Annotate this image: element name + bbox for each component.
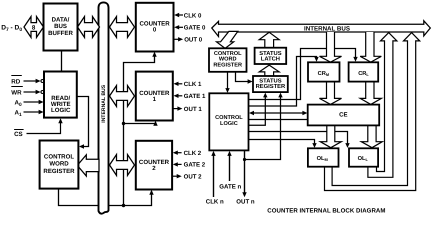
pin RD [11, 76, 44, 86]
arrow bus to control word register (single head) [77, 155, 99, 176]
block control logic [209, 93, 248, 150]
arrowhead into CRL top [353, 57, 357, 62]
junction dot rail bottom [122, 204, 125, 207]
pin CLK 2 [173, 150, 202, 157]
wire: control logic to CE (second link) [249, 119, 308, 121]
arrow CRM to CE [320, 82, 342, 105]
block data/bus buffer [44, 4, 78, 51]
svg-text:BUFFER: BUFFER [48, 30, 73, 37]
svg-text:LATCH: LATCH [261, 55, 280, 62]
block OLM [308, 148, 339, 166]
wire: control word register to status register [236, 72, 249, 82]
svg-text:CLK 2: CLK 2 [184, 150, 202, 157]
arrow status register to status latch [259, 65, 279, 76]
arrow buffer-bus [78, 17, 100, 38]
svg-text:COUNTER INTERNAL BLOCK DIAGRAM: COUNTER INTERNAL BLOCK DIAGRAM [267, 208, 385, 215]
svg-text:LOGIC: LOGIC [51, 107, 71, 114]
arrowhead into counter 1 bottom [153, 121, 157, 126]
pin CLK 0 [174, 12, 202, 19]
pin CLK n [206, 151, 224, 206]
svg-text:OUT n: OUT n [236, 199, 255, 206]
internal bus (right, horizontal) [212, 21, 430, 37]
block status register [253, 76, 288, 92]
block counter 0 [136, 3, 174, 52]
pin OUT n with down arrow [236, 150, 255, 205]
svg-text:OUT 2: OUT 2 [184, 174, 203, 181]
svg-text:CS: CS [14, 131, 23, 138]
arrow bus-counter0 [110, 17, 135, 38]
wire: control rail from control word register bottom to counters [59, 54, 156, 206]
svg-text:CLK n: CLK n [206, 199, 224, 206]
arrow CE to OLM [320, 126, 341, 148]
arrow bus to control word register (bent) [217, 31, 238, 48]
block control word register (left) [40, 141, 79, 189]
svg-text:GATE 1: GATE 1 [184, 93, 206, 100]
svg-text:LOGIC: LOGIC [220, 121, 238, 127]
wire: control logic to CE (bidirectional) [252, 112, 305, 114]
block OLL [349, 148, 378, 166]
block counter 1 [136, 72, 173, 121]
pin CS [14, 118, 63, 138]
svg-text:CONTROL: CONTROL [215, 115, 243, 121]
wire: buffer to read/write logic [61, 51, 63, 72]
svg-text:GATE 0: GATE 0 [184, 25, 206, 32]
arrow status latch to bus [259, 32, 279, 47]
arrow bus to CRL [360, 32, 381, 62]
svg-text:GATE 2: GATE 2 [184, 162, 206, 169]
svg-text:REGISTER: REGISTER [43, 168, 75, 175]
svg-text:REGISTER: REGISTER [256, 83, 286, 90]
block CRL [349, 62, 379, 81]
wire: control logic to CRL (load) [249, 49, 356, 100]
svg-text:REGISTER: REGISTER [213, 62, 242, 68]
arrowhead into CRM top [314, 57, 318, 62]
svg-text:OUT 0: OUT 0 [184, 37, 203, 44]
svg-text:OLM: OLM [317, 156, 328, 162]
pin GATE 2 [173, 162, 206, 169]
arrowhead into counter 0 bottom [152, 52, 156, 57]
svg-text:INTERNAL BUS: INTERNAL BUS [101, 84, 107, 122]
block CRM [308, 62, 340, 81]
pin OUT 2 [172, 174, 202, 181]
wire: read/write logic to control word register [77, 97, 89, 147]
arrow bus-counter1 [110, 86, 135, 107]
svg-text:CRL: CRL [358, 71, 369, 77]
svg-text:OLL: OLL [358, 156, 369, 162]
svg-text:RD: RD [11, 79, 20, 86]
pin CLK 1 [174, 81, 203, 88]
svg-text:WORD: WORD [49, 160, 69, 167]
svg-text:OUT 1: OUT 1 [184, 106, 203, 113]
pipe OLM to bus (hollow loop with up arrow) [325, 33, 420, 191]
pipe OLL to bus (hollow loop with up arrow) [368, 33, 397, 178]
svg-text:CRM: CRM [318, 71, 329, 77]
data bus arrow with 8 [24, 17, 44, 38]
wire: control word register to control logic [227, 72, 229, 89]
wire: out tap to status register [245, 97, 281, 160]
pin GATE 1 [174, 93, 206, 100]
block status latch [255, 48, 287, 64]
svg-text:WR: WR [11, 90, 22, 97]
arrow bus to CRM [320, 32, 342, 62]
wire: control logic to OLL (latch) [249, 132, 348, 144]
pin GATE 0 [174, 25, 206, 32]
block CE [308, 105, 380, 126]
arrowhead into counter 2 bottom [149, 190, 153, 195]
svg-text:CE: CE [339, 112, 347, 119]
pin OUT 1 [173, 106, 203, 113]
arrowhead into control word register right edge [79, 144, 84, 148]
wire: control logic to CRM (load) [249, 57, 317, 107]
pin A1 [15, 110, 44, 118]
junction dot counter1 tap [122, 122, 125, 125]
junction dot out tap [243, 158, 246, 161]
svg-text:8: 8 [32, 25, 36, 32]
wire: control logic to status register [249, 97, 266, 125]
pin OUT 0 [174, 37, 203, 44]
arrow CRL to CE [360, 82, 381, 105]
wire: control logic to OLM (latch) [249, 140, 315, 144]
block read/write logic [44, 72, 77, 118]
svg-text:CLK 1: CLK 1 [184, 81, 202, 88]
svg-text:GATE n: GATE n [219, 183, 241, 190]
pin GATE n [219, 151, 241, 190]
arrow bus-counter2 [110, 155, 135, 176]
svg-text:CLK 0: CLK 0 [184, 12, 202, 19]
arrow CE to OLL [361, 126, 382, 148]
block control word register (right) [209, 48, 247, 72]
block counter 2 [136, 141, 172, 190]
pin A0 [15, 100, 44, 108]
internal bus ribbon (left) [99, 2, 109, 213]
svg-text:INTERNAL BUS: INTERNAL BUS [304, 25, 350, 32]
pin WR [11, 87, 44, 97]
